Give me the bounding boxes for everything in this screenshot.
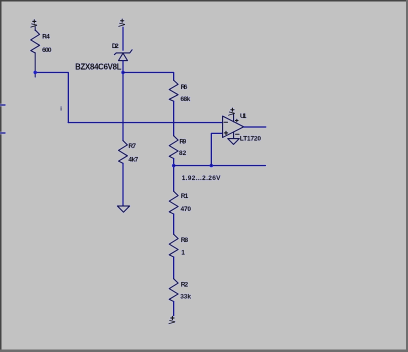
inverting input mark [224,121,227,123]
wire R7 to ground [122,163,124,205]
svg-text:U1: U1 [240,113,247,120]
svg-text:470: 470 [181,206,192,213]
supply symbol above R4 [31,20,37,31]
wire D2 to junction, down to R7 [122,61,124,141]
junction dot riser [210,164,214,168]
net wire to comparator [174,165,266,167]
svg-text:82: 82 [179,150,187,157]
wire supply to D2 [122,27,124,50]
ground below R7 [117,206,129,212]
V- label [236,133,239,135]
resistor R6 [169,80,178,101]
svg-text:R1: R1 [181,193,189,200]
supply symbol above U1 [229,108,235,115]
riser to + input [211,133,222,165]
svg-text:R7: R7 [128,143,136,150]
zener diode D2 [114,50,132,61]
left edge wire stub 1 [0,104,5,106]
resistor R8 [169,234,178,257]
ground below U1 [228,139,240,145]
svg-text:R4: R4 [42,33,50,40]
svg-text:R9: R9 [179,138,186,145]
junction dot D2 [121,71,125,75]
wire R2 to bottom supply [173,302,175,316]
resistor R4 [31,30,40,53]
svg-text:600: 600 [42,47,52,54]
svg-text:33k: 33k [180,294,191,301]
long wire to inverting input [68,122,222,124]
wire R8 to R2 [173,257,175,279]
wire D2 junction to R6 [123,72,174,80]
wire R9 junction down to R1 [173,159,175,192]
svg-text:LT1720: LT1720 [240,136,262,143]
V- pin [233,132,235,138]
svg-text:R2: R2 [181,282,189,289]
resistor R7 [119,141,128,164]
supply symbol below R2 [169,316,175,323]
svg-text:R8: R8 [181,237,189,244]
svg-text:D2: D2 [112,43,119,50]
op-amp U1 [223,116,244,137]
resistor R1 [169,191,178,214]
left edge wire stub 2 [0,132,5,134]
junction dot R9 [172,164,176,168]
resistor R9 [169,136,178,159]
V+ label [236,119,239,122]
resistor R2 [169,279,178,302]
svg-text:1.92...2.26V: 1.92...2.26V [182,175,221,182]
supply symbol above D2 [119,19,125,26]
wire R1 to R8 [173,214,175,234]
V+ pin [233,113,235,121]
wire R4 bottom to junction [34,53,36,77]
junction dot R4 [33,71,37,75]
non-inverting input mark [224,131,227,134]
svg-text:68k: 68k [180,96,190,103]
svg-text:BZX84C6V8L: BZX84C6V8L [75,62,122,71]
wire R6 to R9 [173,101,175,136]
svg-text:R6: R6 [181,84,188,91]
svg-text:4k7: 4k7 [128,156,138,163]
output wire [244,126,266,128]
svg-text:1: 1 [181,250,185,257]
